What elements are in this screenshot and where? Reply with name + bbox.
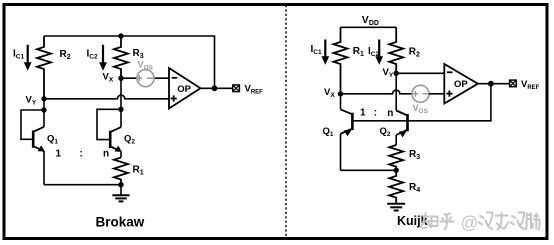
wire Q1 base-collector loop (21, 110, 44, 139)
wire VX rail with hop to VOS (341, 90, 413, 94)
ground (112, 185, 129, 202)
wire op-amp output (201, 87, 233, 89)
resistor R3 (right) (389, 145, 420, 170)
ground (right) (387, 204, 405, 211)
wire R2 bottom to Q1 collector (43, 99, 45, 127)
svg-text:@: @ (461, 213, 479, 233)
current arrow IC2 (right) (368, 40, 383, 65)
node output (right) (488, 81, 494, 87)
wire Q1 emitter down to bottom rail (43, 151, 45, 185)
offset voltage source VOS (136, 60, 154, 87)
offset voltage source VOS (right) (412, 85, 429, 115)
node VX (right) (338, 91, 343, 96)
wire feedback to bases (352, 84, 491, 121)
wire bottom rail (44, 184, 121, 186)
node VY (41, 96, 46, 101)
wire Q2 emitter to R1 (120, 151, 122, 157)
wire top rail with feedback drop (44, 36, 215, 88)
svg-text:Brokaw: Brokaw (96, 215, 145, 230)
node Q2 base tie (118, 107, 123, 112)
transistor Q2 (110, 127, 135, 152)
current arrow IC2 (87, 45, 107, 71)
wire VX down to Q2 collector (120, 78, 122, 127)
node ground junction (118, 182, 123, 187)
svg-text::: : (80, 148, 83, 159)
svg-text:1: 1 (56, 148, 62, 159)
wire VOS to op-amp plus (429, 93, 444, 95)
resistor R1 (right) (334, 27, 365, 94)
svg-text:n: n (103, 148, 109, 159)
current arrow IC1 (13, 45, 32, 71)
resistor R2 (right) (389, 27, 420, 73)
wire op-amp output (right) (478, 83, 510, 85)
node R3 top (118, 33, 123, 38)
current arrow IC1 (right) (311, 40, 330, 65)
wire VY rail with hop over Q2 collector line (44, 95, 169, 99)
svg-text:1: 1 (360, 108, 366, 119)
wire Q1 emitter down (right) (340, 134, 342, 171)
svg-text:OP: OP (454, 79, 468, 90)
svg-text:OP: OP (177, 84, 191, 95)
transistor Q1 (33, 127, 58, 152)
wire VX down to Q1 collector (right) (340, 94, 342, 110)
node R3 R4 junction (394, 168, 399, 173)
resistor R2 (37, 36, 71, 99)
terminal VREF (233, 84, 263, 96)
wire VY down to Q2 collector (395, 73, 397, 110)
svg-text:n: n (387, 108, 393, 119)
resistor R1 (114, 158, 144, 185)
op-amp U2 (444, 64, 478, 104)
wire Q2 base-collector loop (97, 109, 121, 139)
wire Q2 emitter to R3 (395, 135, 397, 145)
terminal VREF (right) (510, 79, 540, 91)
transistor Q2 (right, PNP) (380, 111, 408, 139)
svg-text::: : (374, 108, 377, 119)
resistor R3 (114, 36, 144, 78)
wire Q1 emitter to R3R4 node (341, 169, 397, 171)
transistor Q1 (right, PNP) (323, 109, 353, 138)
op-amp U1 (169, 68, 201, 109)
node Q1 base tie (41, 107, 46, 112)
watermark zhihu (420, 212, 540, 232)
node output (212, 85, 218, 91)
wire VX to op-amp minus input (121, 77, 169, 79)
node VX (118, 76, 123, 81)
resistor R4 (right) (389, 170, 420, 203)
wire VDD top rail (341, 26, 397, 28)
node VY (right) (394, 71, 399, 76)
divider dashed line (285, 5, 287, 238)
wire VY to op-amp minus (396, 72, 444, 74)
